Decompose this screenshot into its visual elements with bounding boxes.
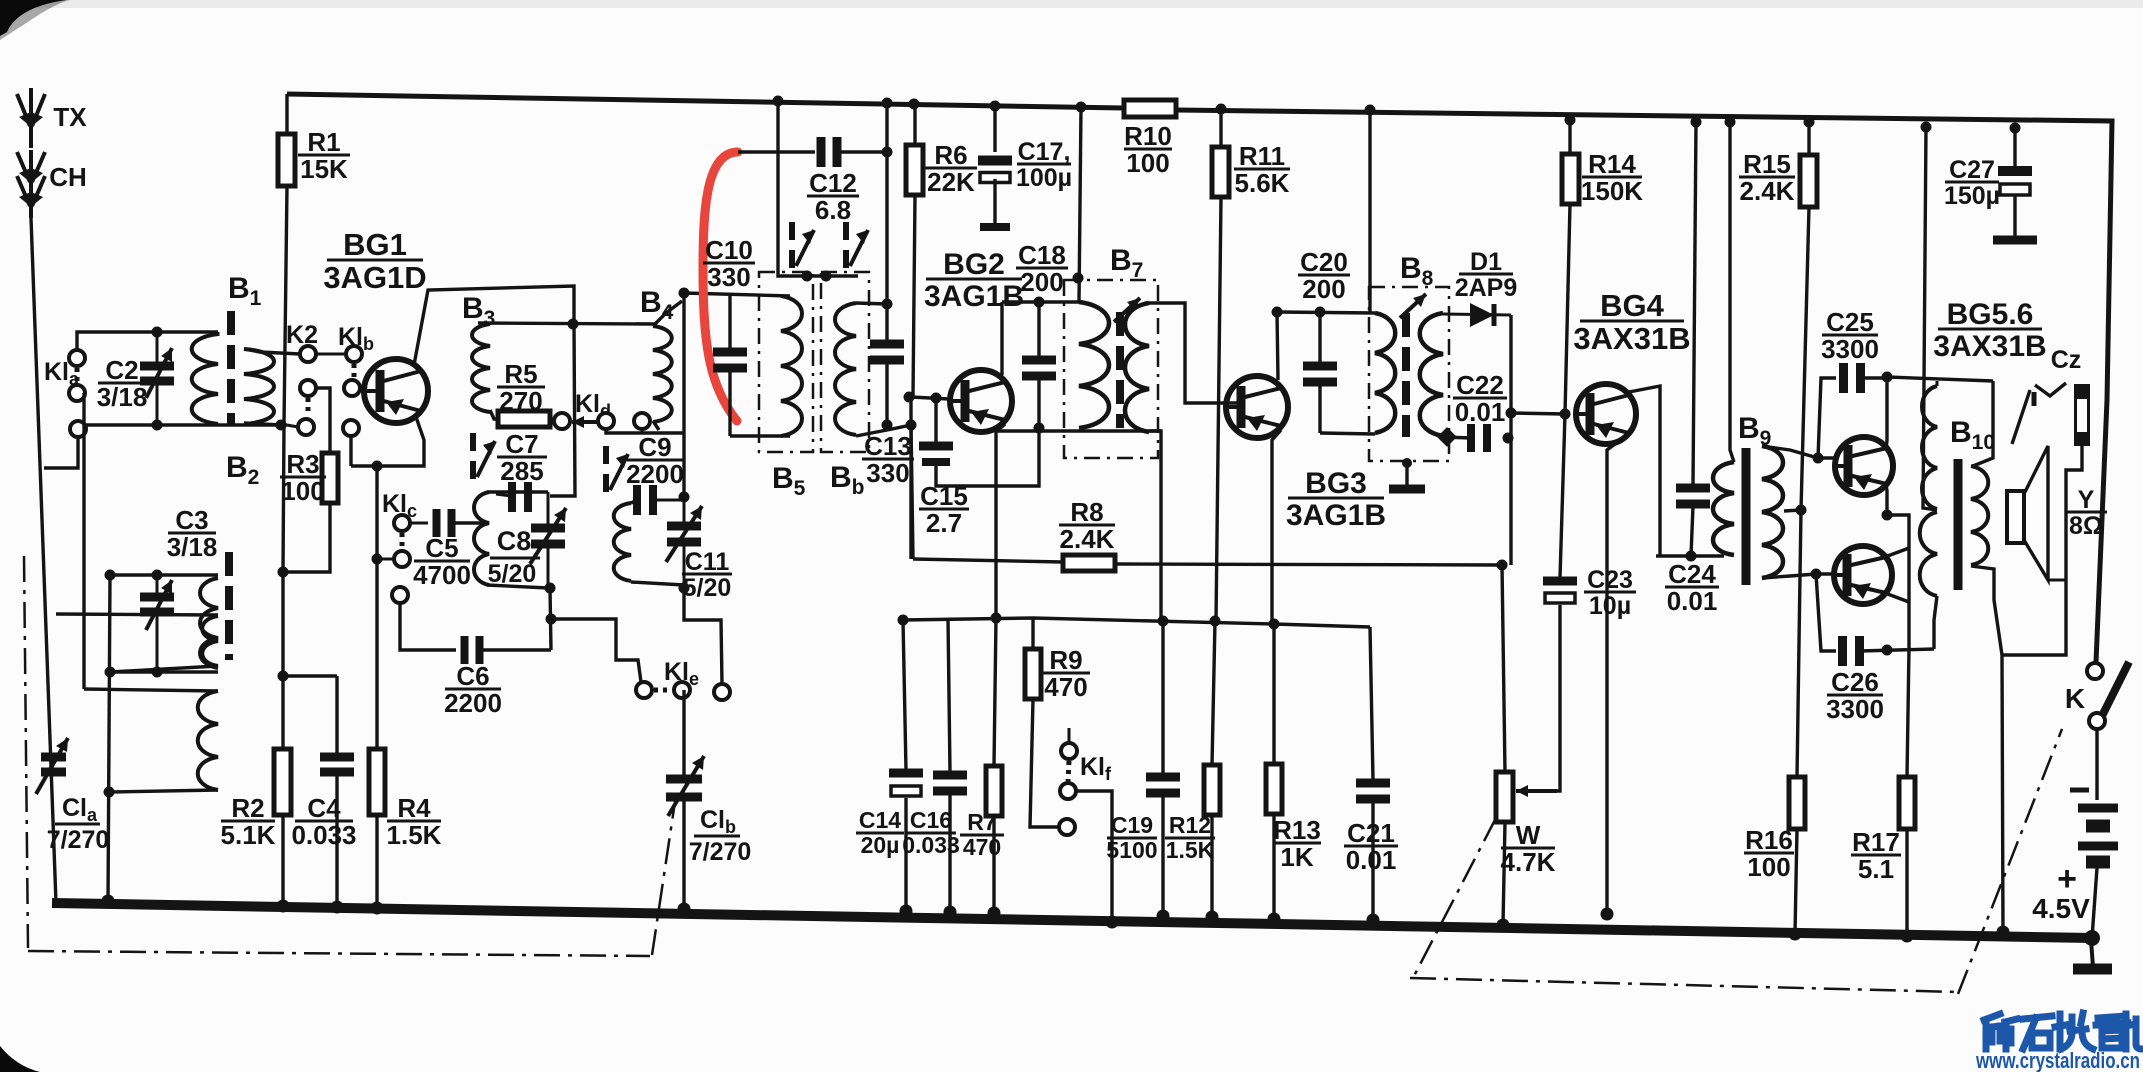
- wire R4 to bus: [375, 815, 378, 908]
- wire bottom ground bus: [52, 903, 2092, 938]
- wire C6 to tank bottom: [480, 648, 551, 651]
- resistor R3: [322, 453, 338, 503]
- node BG6 base link: [1811, 569, 1822, 580]
- node C24 bottom: [1686, 551, 1697, 562]
- wire C10 bottom to B5: [730, 434, 790, 437]
- svg-text:R12: R12: [1169, 812, 1211, 838]
- node center tap: [1796, 505, 1807, 516]
- switch Kl_c link: [400, 533, 405, 549]
- BG2 label: [924, 248, 1024, 313]
- antenna CH: [17, 150, 45, 218]
- C9 label: [626, 432, 684, 489]
- svg-text:5100: 5100: [1106, 837, 1157, 863]
- wire Kl_c3 to C6: [400, 603, 456, 650]
- svg-text:5.6K: 5.6K: [1235, 168, 1290, 198]
- switch K2 terminal 2: [300, 380, 316, 396]
- svg-text:BG3: BG3: [1305, 467, 1367, 500]
- C3 label: [167, 505, 218, 562]
- wire antenna down-lead: [31, 218, 56, 903]
- capacitor C19: [1146, 621, 1180, 916]
- C11 label: [682, 548, 732, 602]
- transformer B6 winding: [835, 303, 856, 435]
- R8 label: [1059, 497, 1115, 554]
- svg-text:200: 200: [1020, 267, 1063, 297]
- node Kl_f bus: [1106, 916, 1119, 929]
- R14 label: [1581, 149, 1643, 206]
- transformer B8 primary: [1375, 313, 1395, 433]
- wire BG6 emitter: [1885, 593, 1909, 602]
- node B1 bottom rail: [276, 420, 287, 431]
- switch K upper contact: [2087, 663, 2103, 679]
- wire Kl_f2 down: [1076, 791, 1112, 922]
- BG1 label: [323, 227, 426, 295]
- wire BG5 emitter: [1886, 484, 1887, 515]
- C26 label: [1826, 667, 1884, 724]
- wire speaker cone tie: [2048, 579, 2066, 582]
- wire B9 primary bottom rail: [1656, 554, 1724, 557]
- wire Kl_b2 to BG1 base: [360, 388, 366, 389]
- transformer B8 box: [1369, 287, 1449, 461]
- switch Kl_b terminal 2: [344, 380, 360, 396]
- node R13 bus: [1268, 913, 1281, 926]
- svg-text:C25: C25: [1826, 307, 1874, 337]
- svg-text:CH: CH: [49, 162, 87, 192]
- B8 trimmer arrow: [1400, 294, 1426, 318]
- switch Kl_e terminal 1: [636, 682, 652, 698]
- capacitor C12: [821, 137, 837, 167]
- node switch B5: [802, 271, 813, 282]
- wire B3 right side down: [550, 323, 575, 496]
- svg-text:R5: R5: [504, 359, 537, 389]
- C13 label: [862, 431, 914, 488]
- switch Kl_d terminal 1: [554, 413, 570, 429]
- C4 label: [291, 793, 356, 850]
- capacitor C7 (series): [512, 482, 528, 512]
- page corner bottom-left: [0, 1046, 40, 1072]
- transformer B10 left winding lower: [1920, 512, 1937, 649]
- R11 label: [1234, 141, 1290, 198]
- svg-text:C12: C12: [809, 168, 857, 198]
- svg-text:R3: R3: [286, 449, 319, 479]
- svg-text:BG1: BG1: [343, 227, 407, 262]
- node output node: [1882, 510, 1893, 521]
- svg-text:2.4K: 2.4K: [1740, 176, 1795, 206]
- diode D1 2AP9: [1443, 303, 1511, 327]
- wire R11 down: [1216, 197, 1221, 621]
- svg-text:1.5K: 1.5K: [1166, 837, 1215, 863]
- node BG5 base link: [1813, 453, 1824, 464]
- switch Kl_b terminal 3: [343, 420, 359, 436]
- node R4 bus: [371, 902, 384, 915]
- svg-text:C23: C23: [1587, 566, 1633, 594]
- wire C8 bottom to rail: [550, 588, 551, 650]
- node bus B5 feed: [773, 96, 784, 107]
- resistor R16: [1789, 510, 1805, 934]
- switch Kl_e terminal 3: [714, 684, 730, 700]
- BG4 label: [1573, 288, 1690, 356]
- node BG2 base C15: [931, 393, 942, 404]
- wire B6 top stub: [856, 303, 887, 304]
- svg-text:K2: K2: [286, 321, 318, 349]
- C2 label: [97, 355, 148, 412]
- svg-text:R16: R16: [1745, 825, 1793, 855]
- svg-text:15K: 15K: [300, 154, 348, 184]
- wire B1 secondary top to K2: [244, 349, 300, 354]
- capacitor C17 (electrolytic): [978, 106, 1012, 227]
- transformer B10 right winding: [1971, 381, 1993, 565]
- wire switch feeds: [778, 101, 858, 276]
- svg-text:R9: R9: [1049, 645, 1082, 675]
- node B4 top: [679, 288, 690, 299]
- wire B2 output winding top: [84, 689, 218, 691]
- switch Kl_d arrow: [572, 420, 598, 424]
- R16 label: [1744, 825, 1794, 882]
- node bias C19: [1158, 616, 1169, 627]
- R17 label: [1851, 827, 1901, 884]
- capacitor C16: [933, 619, 967, 912]
- node C13 collector rail: [882, 299, 893, 310]
- svg-text:TX: TX: [53, 102, 87, 132]
- node R2 bus: [277, 900, 290, 913]
- wire Kl_a2 rail: [82, 393, 85, 689]
- wire B10 right bottom to bus: [1971, 566, 2003, 932]
- node C1b bus: [678, 903, 691, 916]
- switch K2 terminal 3: [298, 419, 314, 435]
- svg-text:2.7: 2.7: [926, 508, 962, 538]
- svg-text:100: 100: [1126, 148, 1169, 178]
- switch Kl_a link: [75, 368, 80, 384]
- svg-text:3300: 3300: [1821, 334, 1879, 364]
- svg-text:2.4K: 2.4K: [1060, 524, 1115, 554]
- wire BG3 emitter riser: [1272, 430, 1281, 627]
- watermark logo: [1984, 1013, 2141, 1049]
- wire Kl_d2 to B4 bottom: [606, 429, 683, 433]
- capacitor C23 (electrolytic): [1543, 414, 1577, 791]
- node bus R14: [1565, 115, 1576, 126]
- switch K lower contact: [2089, 713, 2105, 729]
- svg-text:5.1: 5.1: [1858, 854, 1894, 884]
- wire BG4 collector: [1629, 386, 1660, 556]
- wire R3 bottom: [283, 503, 330, 572]
- node C12 bus riser: [882, 147, 893, 158]
- C5 label: [413, 533, 471, 590]
- wire R6 to base: [911, 195, 915, 397]
- node C25 right: [1882, 372, 1893, 383]
- capacitor C8 (variable): [530, 508, 566, 564]
- B8 ground: [1389, 458, 1425, 489]
- svg-text:10µ: 10µ: [1589, 592, 1631, 620]
- wire to BG4 base: [1511, 413, 1565, 414]
- resistor R1: [278, 134, 295, 186]
- node C11 top: [679, 492, 690, 503]
- C24 label: [1665, 559, 1719, 616]
- antenna TX: [17, 88, 45, 148]
- switch Kl_d terminal 3: [634, 413, 650, 429]
- switch K lever: [2098, 662, 2129, 724]
- svg-text:3/18: 3/18: [97, 382, 148, 412]
- svg-text:3AG1B: 3AG1B: [1286, 499, 1386, 532]
- svg-text:R13: R13: [1273, 815, 1321, 845]
- node bus B7 feed: [1076, 102, 1087, 113]
- capacitor C24: [1676, 122, 1710, 556]
- wire R1 riser: [285, 94, 288, 134]
- wire BG6 collector: [1885, 548, 1909, 557]
- wire B7 riser: [1079, 107, 1081, 302]
- wire coupling bottom: [110, 666, 218, 672]
- svg-text:4.7K: 4.7K: [1501, 847, 1556, 877]
- svg-text:C16: C16: [910, 807, 952, 833]
- svg-text:4.5V: 4.5V: [2032, 893, 2090, 924]
- node R17 bus: [1901, 930, 1914, 943]
- node C26 right: [1882, 645, 1893, 656]
- switch Kl_c terminal 2: [394, 551, 410, 567]
- transistor BG1: [364, 359, 428, 423]
- C25 label: [1821, 307, 1879, 364]
- svg-text:470: 470: [1044, 672, 1087, 702]
- svg-text:C14: C14: [859, 807, 901, 833]
- wire C3 tank top rail: [110, 573, 218, 576]
- node bus R6: [909, 99, 920, 110]
- transformer B5 winding: [781, 296, 802, 436]
- transformer B10 left winding upper: [1922, 381, 1937, 509]
- resistor R6: [906, 145, 923, 195]
- transformer B9 secondary: [1762, 446, 1783, 578]
- svg-text:R15: R15: [1743, 149, 1791, 179]
- wire AGC rail right: [1115, 564, 1502, 565]
- R9 label: [1042, 645, 1090, 702]
- capacitor C25: [1818, 363, 1888, 458]
- wire Kl_c2 to R4 riser: [377, 558, 394, 561]
- resistor R13: [1266, 624, 1282, 919]
- transformer B2 core: [225, 552, 233, 660]
- capacitor C13: [870, 344, 904, 425]
- node switch B6: [821, 271, 832, 282]
- node B8 collector riser: [1272, 307, 1283, 318]
- tank C11 loop: [614, 497, 684, 588]
- resistor R9: [1025, 618, 1059, 827]
- wire B7 secondary top to BG3: [1149, 303, 1237, 403]
- C22 label: [1453, 370, 1507, 427]
- C17 label: [1016, 138, 1072, 192]
- switch Kl_c terminal 3: [392, 587, 408, 603]
- node tank low-left: [104, 787, 115, 798]
- svg-text:6.8: 6.8: [815, 195, 851, 225]
- svg-text:100µ: 100µ: [1016, 164, 1072, 192]
- wire emitter to R4: [375, 466, 378, 749]
- R1 label: [298, 127, 350, 184]
- wire D1 down riser: [1509, 315, 1512, 565]
- svg-text:C26: C26: [1831, 667, 1879, 697]
- capacitor C4: [320, 676, 354, 907]
- node C4 top: [278, 671, 289, 682]
- transistor BG4: [1576, 384, 1636, 444]
- wire emitter rail y429: [996, 429, 1161, 432]
- node Kl_c return: [372, 554, 383, 565]
- resistor R11: [1212, 147, 1229, 197]
- node bias R12: [1210, 616, 1221, 627]
- coil antenna coupling: [202, 616, 218, 666]
- wire C20 bottom to B8: [1320, 433, 1375, 434]
- capacitor C10: [713, 296, 747, 436]
- svg-text:270: 270: [499, 386, 542, 416]
- wire BG3 collector riser: [1277, 312, 1278, 380]
- node B8 secondary bottom: [1437, 427, 1457, 447]
- svg-text:R17: R17: [1852, 827, 1900, 857]
- svg-text:BG2: BG2: [943, 248, 1005, 281]
- svg-text:C6: C6: [456, 661, 489, 691]
- node BG4 bus: [1601, 908, 1614, 921]
- transformer B2 tuned winding: [200, 578, 218, 668]
- node C18 top: [1034, 297, 1045, 308]
- svg-text:C20: C20: [1300, 247, 1348, 277]
- wire C12 top link: [738, 150, 815, 153]
- svg-text:K: K: [2065, 683, 2085, 714]
- capacitor C26: [1816, 574, 1934, 666]
- svg-text:R1: R1: [307, 127, 340, 157]
- wire K2-3 stub: [287, 425, 298, 427]
- coil B2 output winding: [198, 691, 218, 790]
- transformer B9 core bar: [1742, 448, 1751, 585]
- svg-text:100: 100: [1747, 852, 1790, 882]
- BG3 label: [1286, 467, 1386, 532]
- B7 trimmer arrow: [1114, 298, 1140, 322]
- transformer B5 box: [759, 272, 813, 452]
- svg-text:C9: C9: [638, 432, 671, 462]
- node bus R15: [1804, 117, 1815, 128]
- svg-text:8Ω: 8Ω: [2069, 512, 2103, 540]
- svg-text:R14: R14: [1588, 149, 1636, 179]
- node BG4 base branch: [1506, 408, 1517, 419]
- switch Kl_c terminal 1: [394, 515, 410, 531]
- resistor R4: [369, 749, 385, 815]
- svg-text:3AX31B: 3AX31B: [1573, 321, 1690, 356]
- node C8 bottom: [545, 583, 556, 594]
- node W bus: [1497, 919, 1510, 932]
- ground symbol battery return: [2073, 940, 2112, 969]
- C10 label: [703, 235, 755, 292]
- svg-text:22K: 22K: [927, 167, 975, 197]
- wire output riser: [1887, 515, 1909, 648]
- node R7 bus: [988, 907, 1001, 920]
- transformer B1 core: [227, 311, 235, 424]
- trimmer contact at C9: [606, 446, 628, 492]
- svg-text:Cz: Cz: [2051, 346, 2082, 374]
- node B3 top: [568, 319, 579, 330]
- switch Kl_f terminal 1: [1061, 728, 1077, 759]
- wire top supply bus right part: [1176, 110, 2112, 662]
- node R3 return: [278, 567, 289, 578]
- wire osc gnd rail: [551, 619, 641, 682]
- wire C9 left: [631, 500, 637, 503]
- node base node: [904, 392, 915, 403]
- W label: [1501, 820, 1556, 877]
- wire BG2 collector riser: [1000, 302, 1003, 375]
- svg-text:285: 285: [500, 456, 543, 486]
- node C21 bus: [1367, 914, 1380, 927]
- band switch contact B5: [792, 222, 814, 268]
- svg-text:C4: C4: [307, 793, 341, 823]
- node B6 bottom tank: [882, 420, 893, 431]
- C19 label: [1106, 812, 1157, 863]
- node bus B9: [1725, 117, 1736, 128]
- transformer B10 core bar: [1954, 459, 1963, 590]
- node AGC W: [1497, 560, 1508, 571]
- wire B4 top to B5: [684, 293, 790, 296]
- resistor R10 (in bus): [1124, 100, 1176, 117]
- transformer B7 core: [1116, 312, 1124, 428]
- transformer B6 box: [821, 272, 869, 452]
- svg-text:330: 330: [866, 458, 909, 488]
- R2 label: [221, 793, 276, 850]
- svg-text:0.01: 0.01: [1346, 845, 1397, 875]
- svg-text:3AX31B: 3AX31B: [1933, 330, 2046, 363]
- C14 label: [856, 807, 904, 858]
- band switch contact B6: [846, 222, 868, 268]
- wire B9 center tap: [1784, 510, 1801, 511]
- wire B6 bottom: [856, 425, 911, 436]
- R10 label: [1124, 121, 1172, 178]
- R4 label: [387, 793, 442, 850]
- resistor R12: [1204, 621, 1220, 917]
- wire Kl_a1 to C2 tank top: [77, 332, 218, 350]
- wire C5 to C8 tank: [452, 521, 489, 524]
- capacitor C6: [465, 636, 480, 664]
- switch Kl_f link: [1068, 761, 1069, 781]
- svg-text:W: W: [1516, 820, 1541, 850]
- R5 label: [497, 359, 545, 416]
- wire bias rail y620: [903, 618, 1370, 627]
- switch Kl_b terminal 1: [346, 346, 362, 362]
- capacitor C20: [1303, 312, 1337, 433]
- svg-text:R10: R10: [1124, 121, 1172, 151]
- node bus R11: [1216, 104, 1227, 115]
- svg-text:C3: C3: [175, 505, 208, 535]
- switch Kl_a terminal 3: [70, 421, 86, 437]
- tank C8 loop: [474, 492, 548, 588]
- svg-text:R6: R6: [934, 140, 967, 170]
- capacitor C11 (variable): [666, 506, 702, 562]
- node bus B8: [1365, 105, 1376, 116]
- wire jack bottom: [2002, 446, 2082, 655]
- svg-text:D1: D1: [1470, 248, 1502, 276]
- svg-text:C10: C10: [705, 235, 753, 265]
- svg-text:C27: C27: [1949, 156, 1995, 184]
- capacitor C22: [1471, 424, 1487, 452]
- svg-text:R7: R7: [967, 809, 996, 835]
- wire antenna coupling top: [56, 614, 218, 615]
- node C11 bottom: [679, 583, 690, 594]
- svg-text:C13: C13: [864, 431, 912, 461]
- svg-text:5/20: 5/20: [683, 574, 732, 602]
- svg-text:0.01: 0.01: [1455, 397, 1506, 427]
- transformer B7 box: [1064, 280, 1158, 458]
- svg-text:5.1K: 5.1K: [221, 820, 276, 850]
- capacitor C1b (variable gang): [666, 690, 704, 909]
- svg-text:0.01: 0.01: [1667, 586, 1718, 616]
- svg-text:0.033: 0.033: [902, 832, 960, 858]
- wire collector rail y303: [1002, 300, 1079, 303]
- wire B8 secondary bottom to C22: [1443, 437, 1471, 438]
- node C16 bus: [944, 906, 957, 919]
- gang link volume switch: [1410, 729, 2062, 994]
- wire C12 right: [838, 150, 887, 153]
- wire base riser: [909, 397, 912, 559]
- resistor R7: [986, 618, 1002, 913]
- battery minus label: [2070, 788, 2089, 793]
- switch Kl_a terminal 1: [69, 350, 85, 366]
- svg-text:0.033: 0.033: [291, 820, 356, 850]
- svg-text:R4: R4: [397, 793, 431, 823]
